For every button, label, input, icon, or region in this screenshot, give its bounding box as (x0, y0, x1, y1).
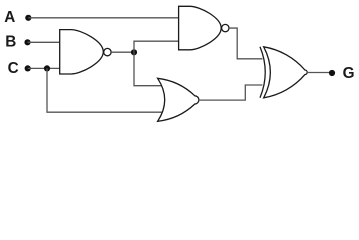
wire C branch down to OR U3 bottom input (47, 68, 163, 112)
wire B to NAND U1 top input (28, 41, 60, 43)
wire U3 output to XOR U4 bottom input (199, 85, 263, 100)
or U3 body (158, 78, 199, 121)
svg-text:C: C (8, 60, 19, 77)
xor U4 input arc (260, 47, 265, 98)
wire U1 output to junction (111, 51, 134, 53)
wire C to NAND U1 bottom input (28, 67, 60, 69)
node B terminal dot (24, 39, 30, 45)
svg-text:G: G (343, 65, 355, 82)
wire junction up to NAND U2 bottom input (134, 41, 179, 52)
wire U4 output to G (307, 72, 330, 74)
node C terminal dot (25, 65, 31, 71)
nand U2 bubble (222, 24, 229, 31)
wire junction down to OR U3 top input (134, 52, 162, 85)
nand U1 bubble (104, 48, 111, 55)
nand U2 body (179, 6, 222, 50)
nand U1 body (60, 30, 104, 74)
svg-text:A: A (4, 9, 15, 26)
xor U4 body (264, 47, 307, 98)
svg-text:B: B (5, 34, 16, 51)
node G terminal dot (329, 70, 335, 76)
wire U2 output to XOR U4 top input (229, 28, 263, 59)
junction on U1 output (131, 49, 137, 55)
wire A to NAND U2 top input (28, 17, 178, 19)
node A terminal dot (25, 15, 31, 21)
junction on C wire (44, 65, 50, 71)
